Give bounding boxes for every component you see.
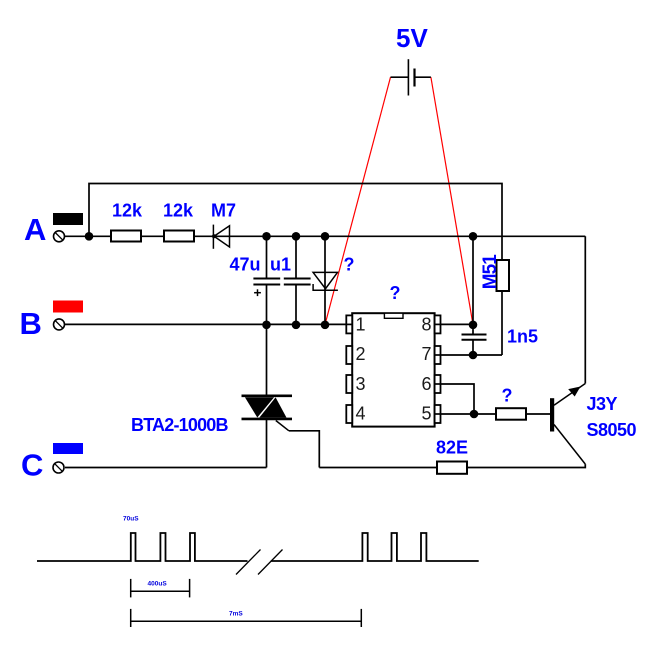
svg-text:47u: 47u: [230, 255, 261, 275]
svg-text:7: 7: [421, 344, 431, 364]
svg-text:2: 2: [356, 344, 366, 364]
svg-text:?: ?: [390, 283, 401, 303]
svg-text:5V: 5V: [396, 23, 428, 53]
svg-text:B: B: [20, 306, 42, 341]
svg-text:S8050: S8050: [587, 420, 637, 440]
svg-text:M51: M51: [480, 254, 501, 290]
svg-text:400uS: 400uS: [148, 581, 168, 588]
svg-text:6: 6: [421, 374, 431, 394]
svg-text:M7: M7: [211, 201, 236, 221]
svg-text:J3Y: J3Y: [587, 394, 618, 414]
svg-text:C: C: [21, 448, 43, 483]
svg-text:12k: 12k: [112, 201, 143, 221]
svg-text:82E: 82E: [436, 438, 468, 458]
svg-text:?: ?: [344, 255, 355, 275]
svg-text:3: 3: [356, 374, 366, 394]
svg-text:8: 8: [421, 315, 431, 335]
svg-text:5: 5: [421, 404, 431, 424]
svg-text:A: A: [24, 212, 46, 247]
svg-text:7mS: 7mS: [229, 611, 243, 618]
svg-text:70uS: 70uS: [123, 516, 139, 523]
svg-text:BTA2-1000B: BTA2-1000B: [131, 415, 229, 435]
svg-text:12k: 12k: [163, 201, 194, 221]
svg-text:1: 1: [356, 315, 366, 335]
svg-text:4: 4: [356, 404, 366, 424]
svg-text:u1: u1: [270, 255, 291, 275]
svg-text:1n5: 1n5: [507, 327, 538, 347]
svg-text:?: ?: [502, 385, 513, 405]
